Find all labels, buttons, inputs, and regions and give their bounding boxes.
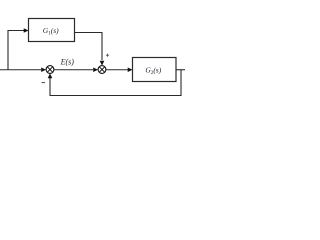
wire: S2 to G2 — [106, 69, 128, 71]
arrowhead into summing junction S1 — [41, 67, 46, 72]
svg-text:G1(s): G1(s) — [43, 26, 59, 36]
svg-text:E(s): E(s) — [60, 58, 75, 67]
block G2 — [133, 58, 177, 82]
arrowhead into S2 — [93, 67, 98, 72]
wire: S1 to S2 — [54, 69, 93, 71]
arrowhead up into S1 — [48, 73, 53, 78]
wire: main input line — [0, 69, 41, 71]
summing junction S2 — [98, 66, 106, 74]
arrowhead down into S2 — [100, 61, 105, 66]
arrowhead into G1 — [24, 28, 29, 33]
wire: feedback path — [50, 70, 181, 96]
summing junction S1 — [46, 66, 54, 74]
svg-text:G2(s): G2(s) — [145, 65, 161, 75]
arrowhead into G2 — [128, 67, 133, 72]
plus sign at S2 — [106, 54, 109, 56]
wire: G1 output to top of S2 — [75, 33, 103, 61]
wire: G2 output — [176, 69, 185, 71]
block G1 — [29, 19, 75, 42]
wire: branch up to G1 input — [8, 31, 24, 70]
minus sign at S1 — [42, 82, 46, 84]
